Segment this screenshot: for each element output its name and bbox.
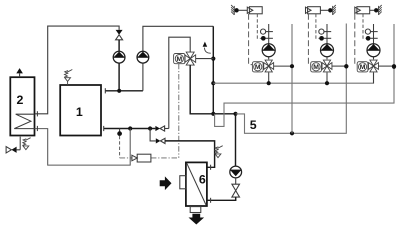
svg-text:M: M [313, 64, 319, 71]
port tick storage tank 2 upper [36, 111, 38, 116]
circuit 2 thermometer [319, 29, 324, 34]
flow arrow tank 2 top [16, 68, 23, 73]
svg-text:M: M [255, 64, 261, 71]
svg-text:6: 6 [199, 173, 206, 187]
circuit 2 actuator M [311, 62, 322, 72]
circuit 3 mixing valve [370, 60, 377, 66]
wire valve SA to bypass loop [165, 128, 169, 130]
drain line tank 2 [17, 137, 21, 150]
check valve below pump P3 [232, 184, 240, 190]
sensor tap on boiler return [119, 129, 121, 132]
circuit 2 wall mount [320, 9, 328, 11]
junction dot node A lower [211, 112, 215, 116]
circuit 1 wire valve bottom to return bus [268, 72, 270, 83]
circuit 3 control line to flow sensor [363, 14, 366, 39]
circuit 1 pump [262, 44, 275, 57]
capillary line actuator M0 to controller 7 [178, 64, 180, 158]
diagonal of heat exchanger 6 [187, 163, 206, 205]
wire pump P1 down to boiler node [118, 63, 120, 91]
heating circuit 2 controller [308, 7, 321, 14]
junction dot lower header right [233, 112, 237, 116]
shut-off valve SB (heat exchanger branch) [156, 138, 161, 143]
circuit 1 junction dot riser [290, 64, 294, 68]
svg-text:M: M [177, 56, 183, 63]
circuit 1 actuator M [252, 62, 263, 72]
circuit 1 mixing valve [265, 60, 272, 66]
circuit 1 flow sensor dot [261, 36, 266, 41]
flange on heat exchanger left [180, 176, 186, 189]
junction dot valves branch [148, 126, 152, 130]
wire check valve to heat exchanger 6 lower port [207, 197, 236, 200]
wire check valve to pump P1 [118, 40, 120, 52]
junction dot circuit1 return [290, 131, 294, 135]
wire boiler 1 lower port to shut-off valve SA [104, 128, 156, 130]
port tick boiler 1 upper [104, 88, 106, 93]
drain valve tank 2 [6, 147, 11, 153]
junction dot pumps/boiler [117, 89, 121, 93]
heating circuit 3 controller [357, 7, 370, 14]
district heat inlet arrow [160, 176, 172, 190]
wire valve SB to heat exchanger 6 [165, 141, 215, 167]
actuator M0 [174, 54, 186, 64]
junction dot return loop [128, 126, 132, 130]
pump P2 [137, 51, 149, 63]
wire valve V0 to node A [196, 58, 214, 60]
air vent symbol [203, 42, 208, 47]
heat exchanger 6 [186, 162, 207, 206]
riser circuit 1 return [291, 24, 293, 133]
junction dot node A valve outlet [211, 57, 215, 61]
circuit 1 wall mount [239, 9, 248, 11]
circuit 3 control line to actuator [355, 14, 357, 65]
svg-text:5: 5 [250, 118, 257, 132]
circuit 1 junction dot return bus [267, 81, 271, 85]
wire pump P3 to check valve [235, 178, 237, 184]
svg-text:1: 1 [76, 105, 83, 119]
safety valve at heat exchanger [215, 154, 221, 158]
circuit 3 thermometer [365, 29, 370, 34]
boiler mixing-valve bypass loop [169, 37, 190, 128]
circuit 2 wire valve bottom to return bus [326, 72, 328, 83]
circuit 1 thermometer [261, 29, 266, 34]
return loop under boiler to tank 2 [35, 129, 130, 166]
port tick storage tank 2 lower [36, 126, 38, 131]
circuit 2 wire valve to riser [332, 65, 346, 67]
circuit 2 control line to flow sensor [316, 14, 320, 39]
controller 7 (fixed-value regulator) [137, 154, 151, 162]
secondary pump P3 drop line [235, 114, 237, 166]
wire boiler 1 upper port to pumps junction [105, 90, 143, 92]
safety valve at tank 2 drain [23, 146, 29, 150]
wire pump P2 riser and top run to node A [143, 26, 213, 91]
heating circuit 1 controller [249, 7, 262, 14]
branch down to valve SB [150, 129, 156, 141]
circuit 2 pump [321, 44, 334, 57]
circuit 3 wire valve bottom to return bus [373, 72, 375, 83]
circuit 3 pump [367, 44, 380, 57]
electric insert coil in tank 2 [14, 114, 35, 128]
storage tank 2 [10, 77, 34, 135]
circuit 2 flow sensor dot [319, 36, 324, 41]
shut-off valve SA (bypass branch) [155, 126, 160, 131]
wire valve V0 bottom to lower header [190, 65, 235, 114]
circuit 3 supply pipe [373, 24, 375, 59]
riser circuit 3 top [393, 24, 395, 67]
sensor bulb dot [117, 131, 122, 136]
port tick heat exchanger top [210, 165, 212, 170]
circuit 3 junction dot riser [392, 64, 396, 68]
circuit 3 flow sensor dot [366, 36, 371, 41]
circuit 1 control line to actuator [249, 14, 253, 65]
svg-text:2: 2 [17, 93, 24, 107]
circuit 1 control line to flow sensor [257, 14, 261, 39]
circuit 3 wire valve to riser [378, 65, 394, 67]
circuit 3 wall mount [370, 9, 374, 11]
circuit 2 mixing valve [323, 60, 330, 66]
boiler 1 [60, 85, 101, 136]
mixing valve V0 (boiler circuit) [186, 52, 194, 59]
return bus y83 to heating circuits [213, 73, 373, 83]
circuit 1 supply pipe [268, 24, 270, 59]
pump P1 [113, 51, 125, 63]
circuit 3 actuator M [357, 62, 368, 72]
vertical main at node A x=213 [212, 26, 214, 114]
port tick boiler 1 lower [103, 126, 105, 131]
riser circuit 2 [345, 24, 347, 67]
check valve above pump P1 [116, 30, 123, 35]
port tick heat exchanger lower [210, 198, 212, 203]
circuit 2 junction dot riser [344, 64, 348, 68]
safety valve on boiler 1 [65, 78, 71, 82]
drain pedestal under heat exchanger [190, 207, 201, 213]
return bus y133 from circuits 1-2 [236, 67, 347, 134]
circuit 2 control line to actuator [308, 14, 310, 65]
circuit 2 supply pipe [326, 24, 328, 59]
wire supply from storage tank 2 top port to check valve (top-left run) [35, 26, 119, 114]
junction dot node A return bus [211, 81, 215, 85]
svg-text:M: M [360, 64, 366, 71]
pump P3 [230, 166, 242, 178]
circuit 2 junction dot return bus [325, 81, 329, 85]
return bus y103 from circuit 3 [215, 67, 394, 127]
sensor dashed line down [119, 136, 121, 158]
waste water arrow down [189, 214, 205, 225]
circuit 1 wire valve to riser [274, 65, 292, 67]
